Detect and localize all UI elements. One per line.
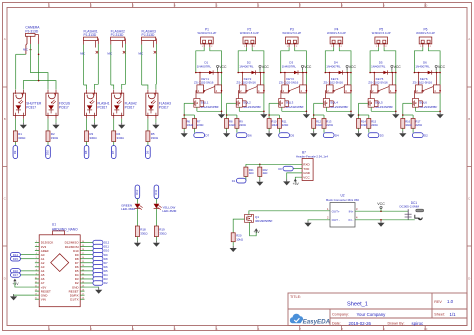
svg-text:ZS-1102-5N16: ZS-1102-5N16 [323, 81, 343, 85]
net label D9 [13, 146, 18, 159]
svg-text:P3: P3 [290, 28, 294, 32]
right net labels D12..D2 [85, 242, 93, 244]
ground under R14 [358, 128, 360, 131]
svg-text:DC005-2.0MM: DC005-2.0MM [400, 204, 420, 208]
gate wire [314, 102, 324, 104]
svg-text:18: 18 [82, 290, 84, 292]
svg-text:10: 10 [424, 4, 428, 8]
svg-text:IRF4905PBF: IRF4905PBF [255, 219, 273, 223]
net label D5 [278, 128, 280, 132]
svg-text:D15: D15 [13, 257, 19, 261]
wire resistor to net label [147, 142, 149, 146]
svg-text:EasyEDA: EasyEDA [303, 318, 331, 325]
svg-text:PC817: PC817 [125, 105, 135, 109]
svg-text:PJ-313D: PJ-313D [111, 33, 124, 37]
svg-text:17: 17 [82, 294, 84, 296]
svg-text:PC817: PC817 [59, 105, 69, 109]
svg-text:D1/TX: D1/TX [70, 297, 79, 301]
svg-text:TITLE:: TITLE: [290, 295, 301, 299]
left net labels D14 D15 [21, 254, 35, 256]
svg-text:VIN: VIN [41, 297, 46, 301]
svg-text:WJ301V-5.0-2P: WJ301V-5.0-2P [327, 31, 346, 35]
gate wire [227, 102, 237, 104]
resistor R20 10k [231, 233, 235, 242]
optocoupler FLASH2 PC817 [112, 93, 124, 115]
svg-text:PC817: PC817 [97, 105, 107, 109]
resistor R6 10k [182, 119, 186, 129]
svg-text:PJ-313D: PJ-313D [83, 33, 96, 37]
title block [288, 293, 467, 326]
svg-text:WJ301V-5.0-2P: WJ301V-5.0-2P [240, 31, 259, 35]
svg-text:IN+: IN+ [349, 209, 354, 213]
svg-text:R12: R12 [316, 120, 321, 124]
net label for YELLOW LED [154, 185, 159, 199]
net label D6 [146, 146, 151, 159]
relay switch connections [280, 91, 283, 99]
svg-text:27: 27 [82, 253, 84, 255]
VCC flag [391, 70, 393, 73]
wire P2 right down to ground rail [252, 47, 264, 111]
left net labels D16 D17 [21, 270, 35, 272]
svg-text:21: 21 [82, 277, 84, 279]
gate wire [359, 102, 369, 104]
resistor R15 220 [367, 119, 371, 129]
resistor R1 330 [13, 131, 17, 142]
ground under R16 [402, 128, 404, 131]
wire LED to R19 [155, 208, 157, 226]
pins of SHUTTER [14, 90, 16, 94]
ground under R8 [226, 128, 228, 131]
svg-text:R14: R14 [361, 120, 366, 124]
svg-text:D2: D2 [424, 134, 428, 138]
pins of FLASH3 [147, 90, 149, 94]
svg-text:+5V: +5V [12, 282, 19, 286]
gate wire [269, 102, 279, 104]
svg-text:B: B [468, 117, 470, 121]
optocoupler SHUTTER PC817 [13, 93, 25, 115]
wires FLASH01 to opto [83, 41, 85, 45]
relay switch connections [325, 91, 328, 99]
ground under SHUTTER [22, 119, 24, 123]
svg-text:Header-Female-2.54_1x4: Header-Female-2.54_1x4 [296, 154, 328, 158]
ground under R20 [232, 242, 234, 246]
svg-text:220Ω: 220Ω [416, 123, 423, 127]
svg-text:330Ω: 330Ω [89, 136, 97, 140]
svg-text:Your Company: Your Company [357, 312, 387, 317]
VCC flag [346, 70, 348, 73]
relay switch connections [414, 91, 417, 99]
wire to LEDYELLOW [155, 199, 157, 204]
ground [136, 237, 138, 241]
svg-text:+5V: +5V [293, 182, 300, 186]
svg-text:WJ301V-5.0-2P: WJ301V-5.0-2P [282, 31, 301, 35]
svg-text:P5: P5 [379, 28, 383, 32]
wires CAMERA to SHUTTER/FOCUS optos [29, 36, 31, 44]
svg-text:R21: R21 [249, 168, 254, 172]
wire P1 right down to ground rail [210, 47, 222, 111]
svg-text:1N4007RL: 1N4007RL [239, 65, 254, 69]
net label D2 [412, 128, 414, 132]
pins of FLASH2 [113, 90, 115, 94]
svg-text:D10: D10 [45, 149, 49, 155]
svg-text:D9: D9 [13, 150, 17, 154]
svg-text:7: 7 [36, 265, 37, 267]
svg-text:14: 14 [35, 294, 37, 296]
net label D6 [236, 128, 238, 132]
wire RXD to R21/R22 [246, 163, 302, 165]
svg-text:D11: D11 [154, 189, 158, 194]
resistor R18 330 [135, 226, 139, 237]
svg-text:1.0: 1.0 [447, 299, 454, 304]
ground under R22 [259, 176, 261, 179]
resistor R19 330 [154, 226, 158, 237]
wire opto FLASH3 to resistor [147, 119, 149, 131]
+5V under Q1 [250, 222, 257, 236]
svg-text:1kΩ: 1kΩ [249, 171, 254, 175]
svg-text:B: B [4, 117, 6, 121]
net label D4 [323, 128, 325, 132]
svg-text:26: 26 [82, 257, 84, 259]
svg-text:Drawn By:: Drawn By: [388, 322, 405, 326]
ground under R6 [183, 128, 185, 131]
wire P4 right down to ground rail [339, 47, 351, 111]
relay switch connections [237, 91, 240, 99]
svg-text:220Ω: 220Ω [371, 123, 378, 127]
wire resistor to net label [14, 142, 16, 146]
svg-text:A: A [468, 37, 470, 41]
svg-text:330Ω: 330Ω [51, 136, 59, 140]
VCC flag [302, 70, 304, 73]
wire P3 left to diode [281, 47, 289, 72]
svg-text:10: 10 [35, 277, 37, 279]
svg-text:spiroc: spiroc [412, 321, 425, 326]
svg-text:D6: D6 [248, 134, 252, 138]
resistor R2 330 [46, 131, 50, 142]
net label for GREEN LED [135, 185, 140, 199]
right GND to ground [85, 286, 99, 289]
mosfet source to rail [238, 107, 240, 111]
svg-text:ZS-1102-5N16: ZS-1102-5N16 [368, 81, 388, 85]
svg-text:D3: D3 [380, 134, 384, 138]
svg-text:VCC: VCC [394, 65, 402, 69]
svg-text:11: 11 [35, 281, 37, 283]
LED YELLOW LED-3MM [154, 204, 160, 209]
relay coil risers [241, 73, 243, 85]
ground under FLASH3 [155, 119, 157, 123]
svg-text:330Ω: 330Ω [117, 136, 125, 140]
svg-text:10kΩ: 10kΩ [405, 123, 411, 127]
frame ticks and grid labels [48, 3, 50, 8]
relay coil risers [373, 73, 375, 85]
wire opto FLASH1 to resistor [86, 119, 88, 131]
wire P2 left to diode [238, 47, 246, 72]
svg-text:R17: R17 [416, 120, 421, 124]
net label D10 [46, 146, 51, 159]
svg-text:VCC: VCC [304, 65, 312, 69]
optocoupler FOCUS PC817 [46, 93, 58, 115]
svg-text:D2: D2 [104, 281, 108, 285]
svg-text:U1: U1 [52, 223, 56, 227]
wire to LEDGREEN [136, 199, 138, 204]
wire IN+ to VCC and DC jack [355, 210, 408, 212]
resistor R11 220 [277, 119, 281, 129]
VCC flag [217, 70, 219, 73]
svg-text:25: 25 [82, 261, 84, 263]
resistor R3 330 [85, 131, 89, 142]
svg-text:330Ω: 330Ω [18, 136, 26, 140]
wires FLASH02 to opto [110, 41, 112, 45]
net label D0 under R21 [245, 176, 247, 180]
wire P3 right down to ground rail [295, 47, 307, 111]
optocoupler FLASH1 PC817 [85, 93, 97, 115]
relay switch connections [369, 91, 372, 99]
resistor R8 10k [225, 119, 229, 129]
svg-text:20: 20 [82, 281, 84, 283]
svg-text:Sheet_1: Sheet_1 [347, 302, 368, 308]
relay coil risers [199, 73, 201, 85]
svg-text:R7: R7 [197, 120, 201, 124]
wire opto SHUTTER to resistor [14, 119, 16, 131]
svg-text:330Ω: 330Ω [159, 231, 167, 235]
wire resistor to net label [86, 142, 88, 146]
svg-text:8: 8 [36, 269, 37, 271]
svg-text:10kΩ: 10kΩ [229, 123, 235, 127]
svg-text:15: 15 [35, 298, 37, 300]
wire P6 right down to ground rail [428, 47, 440, 111]
svg-text:PJ-313D: PJ-313D [142, 33, 155, 37]
resistor R7 220 [193, 119, 197, 129]
svg-text:D6: D6 [145, 150, 149, 154]
gate wire [184, 102, 194, 104]
svg-text:D7: D7 [205, 134, 209, 138]
svg-text:10kΩ: 10kΩ [316, 123, 322, 127]
resistor R21 1k [245, 164, 247, 167]
svg-text:D17: D17 [13, 273, 19, 277]
svg-text:P2: P2 [247, 28, 251, 32]
svg-text:WJ301V-5.0-2P: WJ301V-5.0-2P [416, 31, 435, 35]
LED GREEN LED-3MM [135, 204, 141, 209]
resistor R17 220 [411, 119, 415, 129]
svg-text:R16: R16 [405, 120, 410, 124]
svg-text:13: 13 [35, 290, 37, 292]
mosfet source to rail [325, 107, 327, 111]
svg-text:R9: R9 [239, 120, 243, 124]
svg-text:MIC: MIC [138, 51, 143, 55]
svg-text:10: 10 [424, 327, 428, 331]
wire opto FOCUS to resistor [47, 119, 49, 131]
ground left of arduino [14, 293, 35, 296]
relay switch connections [195, 91, 198, 99]
svg-text:10kΩ: 10kΩ [272, 123, 278, 127]
svg-text:2kΩ: 2kΩ [263, 171, 268, 175]
gate wire [403, 102, 413, 104]
resistor R16 10k [401, 119, 405, 129]
svg-text:PJ-313D: PJ-313D [25, 29, 38, 33]
svg-text:R10: R10 [272, 120, 277, 124]
wire P5 left to diode [370, 47, 378, 72]
svg-text:ZS-1102-5N16: ZS-1102-5N16 [236, 81, 256, 85]
relay coil risers [329, 73, 331, 85]
svg-text:P1: P1 [205, 28, 209, 32]
svg-text:D8: D8 [84, 150, 88, 154]
ground under FOCUS [55, 119, 57, 123]
svg-text:220Ω: 220Ω [239, 123, 246, 127]
svg-text:1N4007RL: 1N4007RL [197, 65, 212, 69]
ground under FLASH1 [94, 119, 96, 123]
svg-text:D5: D5 [290, 134, 294, 138]
svg-text:VCC: VCC [262, 65, 270, 69]
wire P6 left to diode [414, 47, 422, 72]
svg-text:PC817: PC817 [26, 105, 36, 109]
svg-text:1/1: 1/1 [450, 312, 457, 317]
mosfet source to rail [196, 107, 198, 111]
svg-text:VCC: VCC [219, 65, 227, 69]
svg-text:VCC: VCC [377, 202, 385, 206]
wire P1 left to diode [196, 47, 204, 72]
svg-text:OUT+: OUT+ [332, 209, 340, 213]
svg-text:28: 28 [82, 249, 84, 251]
resistor R13 220 [322, 119, 326, 129]
svg-text:19: 19 [82, 285, 84, 287]
svg-text:30: 30 [82, 241, 84, 243]
svg-text:10kΩ: 10kΩ [187, 123, 193, 127]
svg-text:R13: R13 [326, 120, 331, 124]
resistor R22 2k [259, 164, 261, 167]
svg-text:MIC: MIC [107, 51, 112, 55]
resistor R4 330 [112, 131, 116, 142]
svg-text:330Ω: 330Ω [140, 231, 148, 235]
svg-text:6: 6 [36, 261, 37, 263]
resistor R5 330 [146, 131, 150, 142]
svg-text:D0: D0 [278, 167, 282, 171]
svg-text:WJ301V-5.0-2P: WJ301V-5.0-2P [197, 31, 216, 35]
+5V at VCC pin [295, 177, 302, 181]
svg-text:4: 4 [36, 253, 37, 255]
svg-text:23: 23 [82, 269, 84, 271]
resistor R14 10k [357, 119, 361, 129]
svg-text:5: 5 [36, 257, 37, 259]
ground [155, 237, 157, 241]
svg-text:Sheet:: Sheet: [434, 313, 445, 317]
wires FLASH03 to opto [141, 41, 143, 45]
svg-text:Buck Converter Mini 360: Buck Converter Mini 360 [326, 198, 359, 202]
svg-text:D4: D4 [335, 134, 339, 138]
wire P4 left to diode [325, 47, 333, 72]
svg-text:OUT -: OUT - [332, 218, 340, 222]
wire IN- to ground and DC jack [355, 219, 415, 221]
svg-text:P6: P6 [424, 28, 428, 32]
svg-text:R11: R11 [282, 120, 287, 124]
svg-text:IN -: IN - [349, 218, 354, 222]
ground under R10 [268, 128, 270, 131]
svg-text:A: A [4, 37, 6, 41]
svg-text:29: 29 [82, 245, 84, 247]
svg-text:24: 24 [82, 265, 84, 267]
svg-text:PC817: PC817 [159, 105, 169, 109]
net label D8 [84, 146, 89, 159]
svg-text:Date:: Date: [332, 322, 341, 326]
mosfet source to rail [370, 107, 372, 111]
pins of FLASH1 [86, 90, 88, 94]
wire P5 right down to ground rail [384, 47, 396, 111]
svg-text:1N4007RL: 1N4007RL [282, 65, 297, 69]
svg-text:22: 22 [82, 273, 84, 275]
svg-text:1N4007RL: 1N4007RL [371, 65, 386, 69]
svg-text:R15: R15 [371, 120, 376, 124]
mosfet Q1 IRF4905PBF [245, 215, 254, 223]
resistor R10 10k [267, 119, 271, 129]
svg-text:3: 3 [36, 249, 37, 251]
svg-text:VCC: VCC [438, 65, 446, 69]
mosfet source to rail [281, 107, 283, 111]
wire LED to R18 [136, 208, 138, 226]
ground under R12 [313, 128, 315, 131]
svg-text:R6: R6 [187, 120, 191, 124]
resistor R9 220 [235, 119, 239, 129]
EasyEDA logo [290, 314, 303, 323]
svg-text:D1: D1 [232, 179, 236, 183]
relay coil risers [284, 73, 286, 85]
wire OUT- to ground [308, 219, 330, 222]
VCC flag [380, 208, 382, 211]
VCC flag [435, 70, 437, 73]
svg-text:LED-3MM: LED-3MM [162, 209, 176, 213]
svg-text:10kΩ: 10kΩ [236, 237, 244, 241]
net label D1 at TXD [293, 168, 302, 170]
ground under FLASH2 [121, 119, 123, 123]
svg-text:MIC: MIC [80, 51, 85, 55]
svg-text:D7: D7 [111, 150, 115, 154]
svg-text:1N4007RL: 1N4007RL [326, 65, 341, 69]
VCC flag [259, 70, 261, 73]
svg-text:ZS-1102-5N16: ZS-1102-5N16 [413, 81, 433, 85]
relay coil risers [418, 73, 420, 85]
net label D3 [368, 128, 370, 132]
wire opto FLASH2 to resistor [113, 119, 115, 131]
optocoupler FLASH3 PC817 [146, 93, 158, 115]
svg-text:220Ω: 220Ω [326, 123, 333, 127]
svg-text:REV: REV [434, 300, 442, 304]
svg-text:2: 2 [36, 245, 37, 247]
mosfet source to rail [415, 107, 417, 111]
wire Q1 drain to buck OUT+ [249, 211, 330, 215]
svg-text:220Ω: 220Ω [282, 123, 289, 127]
svg-text:12: 12 [35, 285, 37, 287]
ground at GND pin [287, 173, 302, 179]
svg-text:LED-3MM: LED-3MM [121, 207, 135, 211]
svg-text:10kΩ: 10kΩ [361, 123, 367, 127]
svg-text:ZS-1102-5N16: ZS-1102-5N16 [194, 81, 214, 85]
net label D7 [111, 146, 116, 159]
svg-text:MIC: MIC [23, 48, 28, 52]
svg-text:1N4007RL: 1N4007RL [415, 65, 430, 69]
pins of FOCUS [47, 90, 49, 94]
svg-text:9: 9 [36, 273, 37, 275]
svg-text:2019-02-26: 2019-02-26 [349, 321, 372, 326]
svg-text:VCC: VCC [303, 175, 310, 179]
svg-text:16: 16 [82, 298, 84, 300]
svg-text:+5V: +5V [254, 230, 261, 234]
net label D7 [194, 128, 196, 132]
svg-text:R8: R8 [229, 120, 233, 124]
svg-text:D12: D12 [135, 189, 139, 195]
+5V flag left of arduino [13, 279, 16, 282]
svg-text:1: 1 [36, 241, 37, 243]
wire gate to R20 [233, 219, 244, 233]
svg-text:R22: R22 [263, 168, 268, 172]
wire resistor to net label [113, 142, 115, 146]
svg-text:220Ω: 220Ω [197, 123, 204, 127]
